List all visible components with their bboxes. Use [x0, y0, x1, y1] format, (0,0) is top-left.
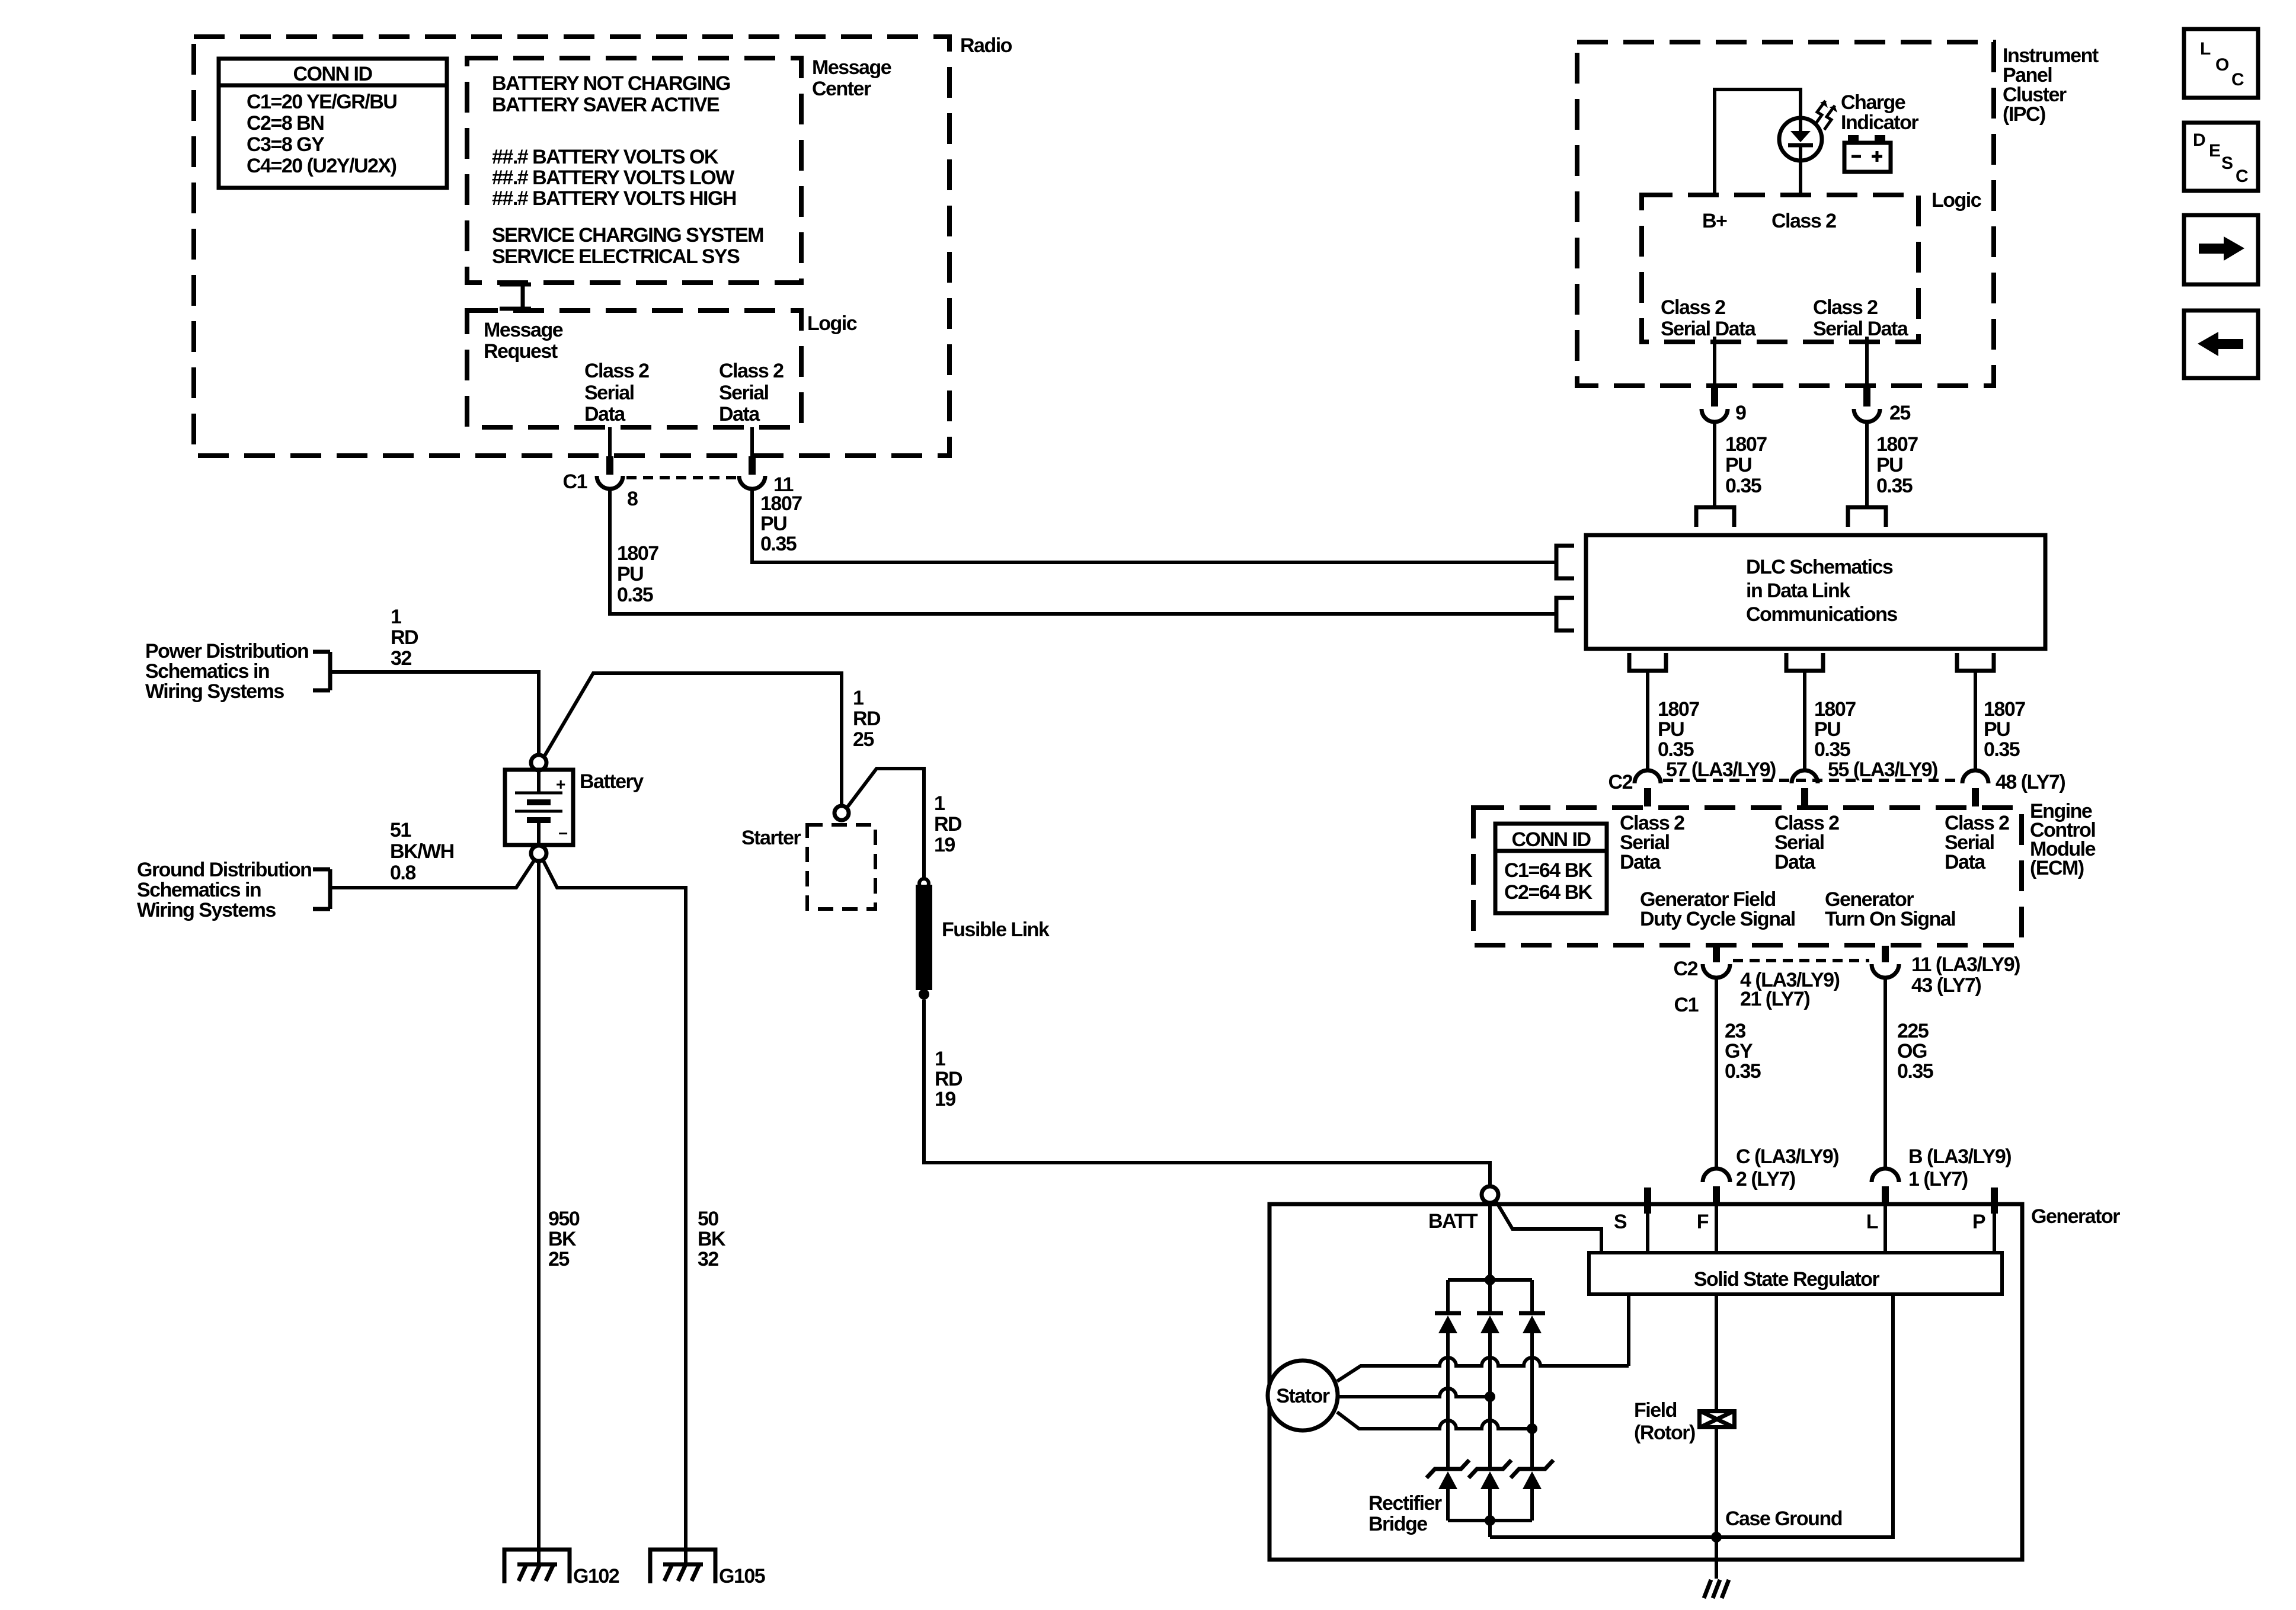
svg-text:Center: Center	[812, 78, 871, 100]
svg-text:RD: RD	[935, 1068, 962, 1090]
svg-text:BATT: BATT	[1428, 1210, 1478, 1233]
svg-text:L: L	[1866, 1211, 1878, 1233]
svg-text:0.35: 0.35	[1876, 475, 1913, 497]
junction dot bottom bus	[1485, 1515, 1495, 1526]
svg-text:Power Distribution: Power Distribution	[145, 640, 308, 662]
svg-text:Data: Data	[1774, 851, 1816, 873]
svg-text:0.35: 0.35	[1725, 1060, 1761, 1083]
wire radio logic to connector C1-11	[750, 427, 754, 456]
svg-text:1: 1	[391, 606, 401, 628]
svg-text:0.35: 0.35	[1984, 738, 2020, 761]
svg-text:0.35: 0.35	[760, 533, 797, 555]
svg-text:S: S	[1614, 1211, 1627, 1233]
svg-text:(ECM): (ECM)	[2030, 857, 2084, 879]
svg-text:19: 19	[935, 1088, 955, 1110]
wire battery negative to G102 (950 BK 25)	[537, 861, 541, 1564]
wire G105 lead	[684, 1550, 687, 1564]
svg-text:SERVICE CHARGING SYSTEM: SERVICE CHARGING SYSTEM	[492, 224, 763, 247]
svg-text:GY: GY	[1725, 1040, 1753, 1062]
svg-text:Duty Cycle Signal: Duty Cycle Signal	[1640, 908, 1795, 930]
pin stub 9	[1711, 387, 1718, 406]
svg-text:Solid State Regulator: Solid State Regulator	[1694, 1268, 1880, 1291]
junction circle battery negative	[531, 846, 546, 861]
box Generator	[1269, 1204, 2022, 1560]
svg-text:Logic: Logic	[807, 312, 857, 335]
dashed connector line (ECM bottom)	[1733, 959, 1869, 962]
notch DLC top 1	[1696, 507, 1734, 527]
junction dot top bus	[1485, 1275, 1495, 1285]
connector pin 25 (cup)	[1854, 409, 1880, 422]
wire stator phase 3	[1337, 1412, 1532, 1429]
svg-text:PU: PU	[1814, 718, 1840, 741]
wire regulator to stator sense (S internal)	[1627, 1294, 1630, 1366]
box Logic (radio, dashed)	[467, 311, 801, 427]
rectifier zener 3 (bottom)	[1511, 1460, 1553, 1521]
connector ECM 11 (cup)	[1872, 964, 1899, 978]
wire S to regulator	[1646, 1214, 1649, 1251]
wire DLC to ECM 55	[1803, 671, 1806, 771]
svg-text:PU: PU	[760, 513, 786, 535]
svg-text:E: E	[2209, 141, 2221, 161]
svg-text:9: 9	[1735, 402, 1746, 424]
svg-text:225: 225	[1897, 1020, 1929, 1042]
svg-text:1: 1	[853, 687, 864, 709]
connector tick between Message Center and Logic	[500, 283, 531, 311]
wire stator phase 1 (to S sense)	[1337, 1358, 1629, 1381]
box Starter (dashed)	[807, 825, 875, 909]
svg-text:Indicator: Indicator	[1841, 111, 1918, 134]
svg-text:B (LA3/LY9): B (LA3/LY9)	[1908, 1145, 2011, 1168]
wire IPC logic to connector 25	[1865, 337, 1869, 387]
svg-text:1: 1	[935, 1048, 945, 1070]
svg-text:+: +	[556, 775, 565, 793]
wire fusible link to generator BATT (1 RD 19)	[924, 1000, 1490, 1186]
svg-text:C4=20 (U2Y/U2X): C4=20 (U2Y/U2X)	[247, 155, 396, 177]
svg-text:Fusible Link: Fusible Link	[942, 918, 1050, 941]
terminal stub S	[1644, 1188, 1651, 1214]
svg-text:(IPC): (IPC)	[2003, 103, 2045, 126]
box Logic (IPC, dashed)	[1642, 195, 1918, 342]
svg-text:55 (LA3/LY9): 55 (LA3/LY9)	[1828, 758, 1937, 781]
wire 51 BK/WH 0.8 (ground distribution)	[330, 860, 535, 888]
svg-text:DLC Schematics: DLC Schematics	[1746, 556, 1893, 578]
svg-text:C1=64 BK: C1=64 BK	[1504, 859, 1593, 882]
svg-text:Schematics in: Schematics in	[145, 660, 269, 683]
svg-text:D: D	[2193, 130, 2206, 150]
connector ECM pin 48 (cup)	[1962, 770, 1988, 783]
pin stub C1-11	[749, 456, 756, 475]
pin stub ECM bottom 11	[1882, 946, 1889, 962]
connector ECM pin 57 (cup)	[1635, 770, 1661, 783]
svg-text:Message: Message	[484, 319, 563, 341]
svg-text:RD: RD	[934, 813, 962, 836]
text message list	[492, 72, 763, 268]
LED charge indicator (circle diode)	[1779, 118, 1822, 195]
terminal stub P	[1991, 1188, 1998, 1214]
connector C1 pin 11 (cup)	[739, 476, 765, 489]
svg-text:0.35: 0.35	[1814, 738, 1850, 761]
svg-text:C: C	[2231, 70, 2244, 89]
svg-text:##.# BATTERY VOLTS LOW: ##.# BATTERY VOLTS LOW	[492, 167, 735, 189]
svg-text:Data: Data	[584, 403, 626, 425]
connector B-1 at generator L (cup)	[1872, 1169, 1899, 1182]
svg-text:BATTERY NOT CHARGING: BATTERY NOT CHARGING	[492, 72, 730, 95]
wire battery junction to starter (1 RD 25)	[544, 673, 842, 806]
wire B+ to LED circuit	[1715, 89, 1801, 195]
wire 1807 PU 0.35 (pin 9 to DLC)	[1713, 422, 1716, 507]
svg-text:Turn On Signal: Turn On Signal	[1825, 908, 1955, 930]
junction dot case ground at field wire	[1711, 1532, 1722, 1542]
box LOC	[2184, 29, 2258, 98]
wire 1807 PU 0.35 (radio pin 8 to DLC)	[610, 489, 1556, 614]
svg-text:PU: PU	[617, 563, 643, 585]
wire BATT down to rectifier bus	[1488, 1203, 1492, 1280]
field rotor symbol	[1697, 1409, 1737, 1429]
table CONN ID (radio)	[219, 59, 447, 188]
connector ECM C2-4 (cup)	[1703, 964, 1730, 978]
box DESC	[2184, 123, 2258, 191]
wire DLC to ECM 48	[1974, 671, 1977, 771]
svg-text:−: −	[558, 824, 568, 843]
connector C-2 at generator F (cup)	[1703, 1169, 1730, 1182]
svg-text:C2=8 BN: C2=8 BN	[247, 112, 324, 135]
svg-text:PU: PU	[1876, 454, 1902, 476]
svg-text:C: C	[2236, 167, 2249, 186]
table CONN ID (ECM)	[1495, 824, 1607, 913]
svg-text:25: 25	[853, 728, 874, 751]
svg-text:Serial Data: Serial Data	[1813, 318, 1909, 340]
box Instrument Panel Cluster (dashed)	[1577, 42, 1994, 386]
svg-text:Communications: Communications	[1746, 603, 1897, 626]
box DLC Schematics	[1586, 535, 2045, 649]
bracket Power Distribution	[313, 652, 330, 690]
svg-text:Starter: Starter	[741, 827, 801, 849]
notch DLC left 1	[1556, 546, 1574, 578]
svg-text:Serial: Serial	[584, 382, 634, 404]
svg-text:0.8: 0.8	[390, 862, 415, 884]
svg-text:##.# BATTERY VOLTS HIGH: ##.# BATTERY VOLTS HIGH	[492, 187, 736, 210]
svg-text:8: 8	[627, 488, 638, 510]
rectifier diode 2 (top)	[1477, 1280, 1503, 1468]
connector ECM pin 55 (cup)	[1792, 770, 1818, 783]
svg-text:Case Ground: Case Ground	[1725, 1507, 1842, 1530]
wire field to case ground	[1715, 1429, 1718, 1579]
wire 23 GY 0.35 (ECM to generator F)	[1715, 978, 1718, 1169]
svg-text:32: 32	[698, 1248, 718, 1270]
svg-text:21 (LY7): 21 (LY7)	[1740, 988, 1809, 1010]
notch DLC top 2	[1848, 507, 1886, 527]
battery icon (charge indicator)	[1844, 135, 1891, 172]
wire 1 RD 32 (power distribution to battery)	[330, 672, 539, 755]
svg-text:C3=8 GY: C3=8 GY	[247, 133, 325, 156]
svg-text:Data: Data	[1945, 851, 1986, 873]
svg-text:Generator: Generator	[2031, 1205, 2120, 1228]
connector C1 pin 8 (cup)	[597, 476, 623, 489]
svg-text:Field: Field	[1634, 1399, 1677, 1422]
svg-text:1807: 1807	[1658, 698, 1699, 721]
svg-text:Wiring Systems: Wiring Systems	[145, 680, 284, 703]
junction dot phase 2	[1485, 1391, 1495, 1402]
svg-text:1807: 1807	[760, 492, 802, 515]
rectifier diode 1 (top)	[1435, 1280, 1461, 1468]
wire DLC to ECM 57	[1646, 671, 1649, 771]
svg-text:Data: Data	[1620, 851, 1661, 873]
svg-text:B+: B+	[1702, 210, 1727, 232]
svg-text:11 (LA3/LY9): 11 (LA3/LY9)	[1911, 953, 2020, 976]
svg-text:C2: C2	[1609, 771, 1633, 793]
svg-text:25: 25	[1889, 402, 1910, 424]
svg-text:Bridge: Bridge	[1368, 1513, 1427, 1535]
ground G102	[504, 1550, 570, 1583]
svg-text:RD: RD	[391, 626, 418, 649]
notch DLC bottom 1	[1629, 653, 1666, 671]
svg-text:CONN ID: CONN ID	[1511, 828, 1591, 851]
wire P to regulator	[1993, 1214, 1996, 1251]
svg-text:1: 1	[934, 792, 945, 815]
box arrow left	[2184, 311, 2258, 378]
wire L to regulator	[1884, 1205, 1887, 1251]
svg-text:CONN ID: CONN ID	[293, 63, 372, 85]
pin stub ECM bottom C2	[1713, 946, 1720, 962]
rectifier zener 1 (bottom)	[1427, 1460, 1469, 1521]
svg-text:1 (LY7): 1 (LY7)	[1908, 1168, 1968, 1190]
svg-text:O: O	[2215, 55, 2229, 75]
svg-text:C2=64 BK: C2=64 BK	[1504, 881, 1593, 904]
svg-text:Class 2: Class 2	[1771, 210, 1836, 232]
stator circle	[1268, 1361, 1338, 1430]
wire 225 OG 0.35 (ECM to generator L)	[1884, 978, 1887, 1169]
pin stub C1-8	[606, 456, 613, 475]
dashed connector line C1	[626, 476, 737, 479]
fusible link	[916, 879, 932, 1000]
svg-text:Ground Distribution: Ground Distribution	[137, 859, 311, 881]
wire regulator to case ground	[1490, 1294, 1893, 1537]
wire radio logic to connector C1-8	[608, 427, 612, 456]
case ground chassis symbol	[1704, 1580, 1729, 1598]
ground G105	[650, 1550, 715, 1583]
svg-text:Battery: Battery	[580, 770, 644, 793]
svg-text:PU: PU	[1725, 454, 1751, 476]
battery symbol	[505, 770, 573, 845]
rectifier zener 2 (bottom)	[1469, 1460, 1511, 1521]
rectifier diode 3 (top)	[1519, 1280, 1545, 1468]
box arrow right	[2184, 215, 2258, 284]
svg-text:0.35: 0.35	[1725, 475, 1761, 497]
notch DLC left 2	[1556, 598, 1574, 630]
wire starter junction to fusible link (1 RD 19)	[847, 769, 924, 879]
wire stator phase 2	[1338, 1388, 1490, 1397]
svg-text:0.35: 0.35	[1897, 1060, 1933, 1083]
wire regulator to field	[1715, 1294, 1718, 1409]
svg-text:Serial: Serial	[719, 382, 769, 404]
svg-text:0.35: 0.35	[617, 584, 653, 606]
svg-text:S: S	[2221, 153, 2233, 173]
notch DLC bottom 2	[1786, 653, 1823, 671]
svg-text:BK: BK	[698, 1228, 726, 1250]
svg-text:C1: C1	[563, 470, 587, 493]
connector pin 9 (cup)	[1702, 409, 1728, 422]
svg-text:48 (LY7): 48 (LY7)	[1996, 771, 2065, 793]
svg-text:(Rotor): (Rotor)	[1634, 1422, 1695, 1444]
svg-text:G105: G105	[719, 1565, 765, 1587]
svg-text:25: 25	[548, 1248, 569, 1270]
wire BATT to regulator (diagonal)	[1496, 1201, 1601, 1251]
junction circle BATT	[1482, 1186, 1498, 1203]
svg-text:32: 32	[391, 647, 411, 670]
svg-text:Serial Data: Serial Data	[1661, 318, 1757, 340]
box Engine Control Module (dashed)	[1473, 808, 2022, 945]
svg-text:PU: PU	[1984, 718, 2010, 741]
wire IPC logic to connector 9	[1713, 337, 1716, 387]
svg-text:BATTERY SAVER ACTIVE: BATTERY SAVER ACTIVE	[492, 94, 720, 116]
svg-text:C (LA3/LY9): C (LA3/LY9)	[1736, 1145, 1838, 1168]
svg-text:Rectifier: Rectifier	[1368, 1492, 1442, 1515]
svg-text:0.35: 0.35	[1658, 738, 1694, 761]
svg-text:in Data Link: in Data Link	[1746, 580, 1850, 602]
svg-text:19: 19	[934, 834, 955, 856]
pin stub 25	[1863, 387, 1870, 406]
lightning bolt arrows	[1815, 101, 1835, 130]
svg-text:23: 23	[1725, 1020, 1745, 1042]
svg-text:Class 2: Class 2	[584, 360, 649, 382]
svg-text:1807: 1807	[1725, 433, 1767, 456]
svg-text:51: 51	[390, 819, 411, 841]
svg-text:F: F	[1697, 1211, 1709, 1233]
svg-text:PU: PU	[1658, 718, 1684, 741]
box Solid State Regulator	[1589, 1253, 2002, 1294]
wire F to regulator	[1715, 1205, 1718, 1251]
svg-text:Charge: Charge	[1841, 91, 1905, 114]
svg-text:50: 50	[698, 1208, 718, 1230]
svg-text:43 (LY7): 43 (LY7)	[1911, 974, 1981, 997]
rectifier bottom bus	[1448, 1519, 1532, 1522]
box Radio (dashed)	[194, 37, 949, 456]
svg-text:SERVICE ELECTRICAL SYS: SERVICE ELECTRICAL SYS	[492, 245, 740, 268]
svg-text:RD: RD	[853, 708, 881, 730]
svg-text:1807: 1807	[1984, 698, 2025, 721]
svg-text:Data: Data	[719, 403, 760, 425]
svg-text:BK: BK	[548, 1228, 577, 1250]
svg-text:C1: C1	[1674, 994, 1699, 1016]
wire 1807 PU 0.35 (radio pin 11 to DLC)	[752, 489, 1556, 562]
svg-text:1807: 1807	[1814, 698, 1856, 721]
junction dot phase 3	[1527, 1423, 1537, 1434]
wire 1807 PU 0.35 (pin 25 to DLC)	[1865, 422, 1869, 507]
notch DLC bottom 3	[1957, 653, 1994, 671]
svg-text:BK/WH: BK/WH	[390, 840, 454, 863]
box Message Center (dashed)	[467, 58, 801, 283]
rectifier top bus	[1448, 1278, 1532, 1282]
dashed connector line C2 (ECM top)	[1663, 779, 1960, 782]
wire battery negative to G105 branch	[543, 860, 686, 1550]
svg-text:Class 2: Class 2	[719, 360, 784, 382]
svg-text:C1=20 YE/GR/BU: C1=20 YE/GR/BU	[247, 91, 396, 113]
svg-text:Logic: Logic	[1932, 189, 1981, 212]
stub bus to case ground wire	[1488, 1521, 1492, 1537]
junction circle starter	[834, 806, 849, 820]
svg-text:P: P	[1972, 1211, 1985, 1233]
svg-text:Stator: Stator	[1276, 1385, 1330, 1407]
svg-text:1807: 1807	[1876, 433, 1918, 456]
svg-text:L: L	[2200, 39, 2211, 59]
svg-text:Class 2: Class 2	[1661, 296, 1725, 319]
svg-text:Request: Request	[484, 340, 558, 363]
svg-text:Message: Message	[812, 56, 891, 79]
svg-text:Radio: Radio	[960, 34, 1012, 57]
svg-text:57 (LA3/LY9): 57 (LA3/LY9)	[1666, 758, 1776, 781]
svg-text:C2: C2	[1674, 958, 1698, 980]
svg-text:Class 2: Class 2	[1813, 296, 1878, 319]
junction circle battery positive	[531, 755, 546, 770]
bracket Ground Distribution	[313, 869, 330, 909]
svg-text:Schematics in: Schematics in	[137, 879, 261, 901]
svg-text:1807: 1807	[617, 542, 658, 565]
svg-text:G102: G102	[573, 1565, 619, 1587]
svg-text:950: 950	[548, 1208, 580, 1230]
svg-text:Wiring Systems: Wiring Systems	[137, 899, 276, 921]
svg-text:2 (LY7): 2 (LY7)	[1736, 1168, 1795, 1190]
svg-text:##.# BATTERY VOLTS OK: ##.# BATTERY VOLTS OK	[492, 146, 719, 168]
svg-text:OG: OG	[1897, 1040, 1927, 1062]
